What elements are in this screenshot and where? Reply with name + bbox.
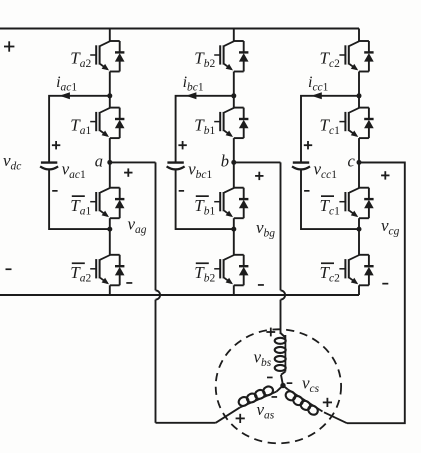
capacitor C_c1 plates [293, 161, 309, 163]
node J1 leg b [231, 93, 236, 98]
wire node c to output [359, 161, 405, 163]
wire leg b vertical segments [233, 29, 235, 42]
label v_cs minus [287, 382, 293, 384]
svg-text:c: c [348, 151, 356, 170]
current arrow i_ac1 [59, 92, 70, 99]
node J1 leg a [107, 93, 112, 98]
wire capacitor to J2 leg c [301, 170, 359, 230]
wire bottom dc rail (-) [0, 294, 359, 296]
node b [231, 160, 236, 165]
label v_bg minus [258, 284, 264, 286]
label cap plus leg b [178, 144, 186, 146]
wire leg c vertical segments [358, 29, 360, 42]
label cap minus leg b [179, 190, 184, 192]
label v_dc minus [6, 268, 12, 270]
node J2 leg a [107, 227, 112, 232]
capacitor C_a1 plates [41, 161, 57, 163]
transistor Tbar_c1 [359, 187, 369, 189]
current arrow i_bc1 [186, 92, 197, 99]
label v_bs plus [266, 331, 275, 333]
node J1 leg c [357, 93, 362, 98]
transistor T_a2 [110, 40, 120, 42]
wire phase c right + drop [347, 162, 405, 423]
label cap minus leg a [52, 190, 57, 192]
transistor Tbar_a1 [110, 187, 120, 189]
transistor Tbar_c2 [359, 254, 369, 256]
machine stator boundary (dashed circle) [216, 329, 341, 443]
transistor T_c2 [359, 40, 369, 42]
wire phase b drop upper [280, 162, 282, 290]
winding v_as [240, 392, 277, 408]
wire J1 to capacitor leg a [49, 96, 110, 162]
svg-text:a: a [95, 151, 103, 170]
wire J1 to capacitor leg c [301, 96, 359, 162]
node a [107, 160, 112, 165]
transistor T_c1 [359, 107, 369, 109]
label v_cg minus [382, 283, 388, 285]
transistor Tbar_b1 [234, 187, 244, 189]
node c [357, 160, 362, 165]
wire phase a drop upper [155, 162, 157, 290]
wire phase b drop lower [280, 300, 282, 334]
wire node b to output [234, 161, 281, 163]
label cap minus leg c [304, 190, 309, 192]
transistor T_b2 [234, 40, 244, 42]
label v_cs plus [323, 402, 332, 404]
label v_as minus [272, 396, 278, 398]
svg-text:b: b [221, 151, 229, 170]
wire capacitor to J2 leg b [176, 170, 234, 230]
wire hop phase b over bottom rail [281, 290, 286, 299]
winding v_cs [283, 386, 288, 390]
label v_dc plus [4, 46, 14, 48]
label cap plus leg c [304, 144, 312, 146]
label v_bs minus [267, 377, 273, 379]
wire J1 to capacitor leg b [176, 96, 234, 162]
transistor Tbar_b2 [234, 254, 244, 256]
capacitor C_b1 plates [167, 161, 183, 163]
wire phase a drop lower [155, 300, 157, 423]
wire phase a diagonal to v_as [216, 408, 240, 423]
wire hop phase a over bottom rail [156, 290, 161, 299]
node J2 leg b [231, 227, 236, 232]
node star point [280, 383, 285, 388]
wire phase c diagonal to v_cs [324, 412, 347, 423]
current arrow i_cc1 [311, 92, 322, 99]
transistor T_b1 [234, 107, 244, 109]
label v_as plus [236, 418, 245, 420]
wire top dc rail (+) [0, 28, 359, 30]
node J2 leg c [357, 227, 362, 232]
winding v_bs [281, 333, 286, 338]
transistor Tbar_a2 [110, 254, 120, 256]
label v_ag minus [126, 282, 132, 284]
label v_ag plus [124, 172, 132, 174]
wire phase a horizontal [156, 422, 216, 424]
label cap plus leg a [52, 144, 60, 146]
wire capacitor to J2 leg a [49, 170, 110, 230]
label v_bg plus [255, 175, 263, 177]
wire leg a vertical segments [109, 29, 111, 42]
transistor T_a1 [110, 107, 120, 109]
wire node a to output [110, 161, 156, 163]
label v_cg plus [381, 175, 389, 177]
